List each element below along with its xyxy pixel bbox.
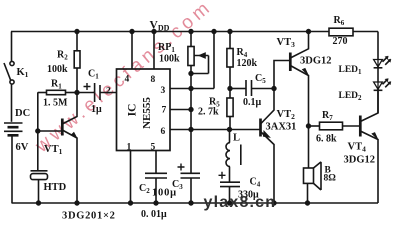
junction dot VT1 emitter ground xyxy=(75,201,79,205)
svg-text:L: L xyxy=(233,133,240,144)
junction dot pin7 xyxy=(189,108,193,112)
svg-text:C2: C2 xyxy=(139,183,150,195)
switch K1 xyxy=(4,61,14,84)
label C3 plus xyxy=(178,164,185,171)
svg-text:C5: C5 xyxy=(255,73,266,85)
svg-text:6V: 6V xyxy=(16,142,29,153)
svg-text:LED2: LED2 xyxy=(339,91,363,102)
svg-text:100k: 100k xyxy=(159,54,180,65)
resistor R6 xyxy=(329,28,353,36)
svg-text:VT3: VT3 xyxy=(277,37,296,49)
wire base node to VT1 xyxy=(38,130,62,132)
svg-text:6. 8k: 6. 8k xyxy=(316,134,337,145)
capacitor C1 xyxy=(77,83,117,102)
svg-text:3AX31: 3AX31 xyxy=(266,122,297,133)
svg-text:HTD: HTD xyxy=(44,182,67,193)
node junction R2/R1/C1/VT1 xyxy=(75,91,79,95)
wire pin1 to ground xyxy=(130,151,132,204)
junction dot C5 right xyxy=(272,87,276,91)
svg-text:3DG12: 3DG12 xyxy=(300,56,332,67)
IC U1 NE555 box xyxy=(117,69,171,151)
svg-text:1. 5M: 1. 5M xyxy=(43,98,68,109)
svg-text:100μ: 100μ xyxy=(152,188,177,199)
svg-text:6: 6 xyxy=(161,127,166,137)
label C4 plus xyxy=(219,172,226,179)
resistor R2 xyxy=(74,32,80,93)
svg-text:C1: C1 xyxy=(88,69,99,81)
capacitor C5 xyxy=(230,80,274,96)
junction dot VT2 emitter ground xyxy=(272,201,276,205)
svg-text:R6: R6 xyxy=(334,15,345,27)
junction dot R5 bottom xyxy=(228,128,232,132)
junction dot C2 ground xyxy=(154,201,158,205)
svg-text:IC: IC xyxy=(127,104,139,117)
svg-text:270: 270 xyxy=(333,36,348,47)
junction dot speaker ground xyxy=(306,201,310,205)
junction dot RP1 top rail xyxy=(189,30,193,34)
svg-text:K1: K1 xyxy=(17,67,29,79)
potentiometer RP1 xyxy=(188,32,209,74)
svg-text:VT2: VT2 xyxy=(277,109,296,121)
svg-text:100k: 100k xyxy=(47,64,68,75)
transistor VT4 xyxy=(360,90,378,203)
svg-text:120k: 120k xyxy=(237,58,258,69)
svg-text:R7: R7 xyxy=(322,110,333,122)
svg-text:0. 01μ: 0. 01μ xyxy=(141,209,167,220)
svg-text:3: 3 xyxy=(161,86,166,96)
wire pin7 xyxy=(170,109,191,111)
junction dot C3 ground xyxy=(189,201,193,205)
wire top VDD rail xyxy=(11,31,378,33)
junction dot VT3 collector rail xyxy=(307,30,311,34)
junction dot R4 top rail xyxy=(228,30,232,34)
junction dot pin4 rail xyxy=(130,30,134,34)
svg-text:R2: R2 xyxy=(57,50,68,62)
wire RP1 chain down to C3 xyxy=(190,74,192,174)
svg-text:8Ω: 8Ω xyxy=(324,174,337,184)
battery B DC 6V xyxy=(4,123,23,139)
watermark www.elecfans.com xyxy=(31,0,217,157)
svg-text:5: 5 xyxy=(151,143,156,153)
wire pin6 xyxy=(170,129,230,131)
svg-text:DC: DC xyxy=(15,108,30,119)
svg-text:VDD: VDD xyxy=(150,20,170,33)
wire pin3 output xyxy=(170,32,214,89)
node junction VT1 base xyxy=(36,129,40,133)
junction dot R7 tap xyxy=(307,124,311,128)
capacitor C2 xyxy=(145,173,167,203)
piezo transducer HTD xyxy=(31,131,48,203)
junction dot pin1 ground xyxy=(129,201,133,205)
svg-text:NE555: NE555 xyxy=(141,97,153,129)
resistor R5 xyxy=(227,89,233,130)
capacitor C4 xyxy=(220,182,240,203)
wire left column top (to switch) xyxy=(11,32,13,62)
junction dot R4/R5/C5 xyxy=(228,87,232,91)
junction dot RP1 bottom xyxy=(189,72,193,76)
wire pin4 to VDD xyxy=(131,32,133,70)
inductor L xyxy=(226,130,241,183)
svg-text:8: 8 xyxy=(151,75,156,85)
resistor R7 xyxy=(309,122,361,130)
svg-text:ylax8.cn: ylax8.cn xyxy=(204,194,277,211)
transistor VT2 xyxy=(230,61,291,204)
junction dot pin8 rail xyxy=(152,30,156,34)
svg-text:0.1μ: 0.1μ xyxy=(243,97,262,108)
junction dot pin6 xyxy=(189,128,193,132)
svg-text:2: 2 xyxy=(106,87,111,97)
capacitor C3 xyxy=(181,173,201,203)
svg-text:R1: R1 xyxy=(51,79,62,91)
LED1 xyxy=(374,56,391,68)
wire right column top xyxy=(377,32,379,114)
wire bottom ground rail xyxy=(12,202,379,204)
junction dot C4 ground xyxy=(228,201,232,205)
svg-text:2. 7k: 2. 7k xyxy=(198,107,219,118)
junction dot pin3/pot chain xyxy=(189,87,193,91)
junction dot pin3 riser rail xyxy=(212,30,216,34)
resistor R1 xyxy=(38,90,77,94)
svg-text:3DG201×2: 3DG201×2 xyxy=(62,211,116,222)
wire battery to bottom rail xyxy=(11,139,13,203)
svg-text:C4: C4 xyxy=(250,177,261,189)
svg-text:3DG12: 3DG12 xyxy=(344,155,376,166)
wire switch to battery xyxy=(11,84,13,122)
junction dot R2 top rail xyxy=(75,30,79,34)
svg-text:LED1: LED1 xyxy=(339,65,363,76)
wire pin8 to VDD xyxy=(153,32,155,70)
resistor R4 xyxy=(227,32,233,89)
wire R1 left down to base node xyxy=(37,92,39,131)
label C1 plus xyxy=(84,83,91,90)
transistor VT1 xyxy=(62,93,77,204)
junction dot HTD ground xyxy=(37,201,41,205)
svg-text:1μ: 1μ xyxy=(91,104,102,115)
svg-text:4: 4 xyxy=(125,75,130,85)
svg-text:VT1: VT1 xyxy=(44,144,63,156)
wire pin5 down xyxy=(155,151,157,174)
speaker B xyxy=(304,126,322,203)
svg-text:VT4: VT4 xyxy=(348,142,367,154)
LED2 xyxy=(374,79,391,91)
svg-text:7: 7 xyxy=(162,106,167,116)
transistor VT3 xyxy=(290,32,308,127)
